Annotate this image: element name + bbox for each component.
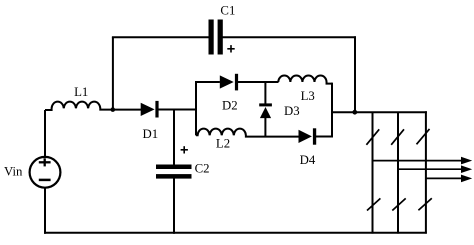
svg-text:Vin: Vin [4,165,23,179]
svg-text:D3: D3 [284,104,300,118]
svg-text:C1: C1 [220,4,235,18]
svg-text:L1: L1 [74,85,88,99]
svg-text:L3: L3 [301,89,315,103]
svg-text:L2: L2 [216,137,230,151]
svg-text:C2: C2 [195,162,210,176]
svg-text:D4: D4 [300,153,316,167]
svg-text:D2: D2 [222,98,238,112]
svg-text:D1: D1 [142,127,158,141]
